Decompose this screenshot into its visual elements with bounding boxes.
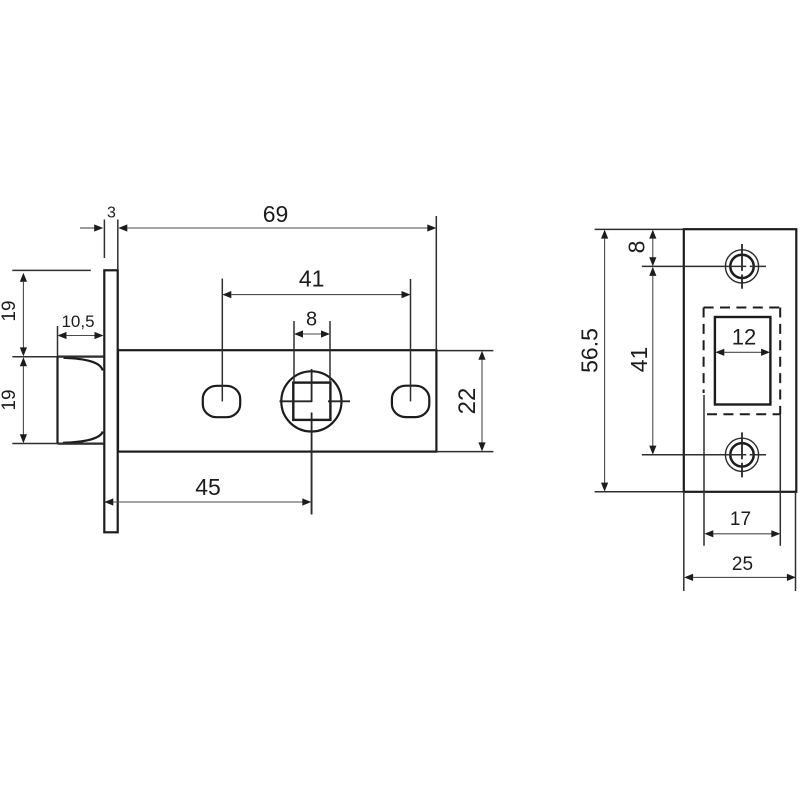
svg-text:12: 12 — [732, 325, 756, 350]
svg-text:10,5: 10,5 — [61, 312, 94, 331]
svg-text:25: 25 — [732, 554, 753, 575]
svg-text:8: 8 — [624, 241, 650, 254]
svg-text:41: 41 — [626, 347, 652, 373]
svg-text:69: 69 — [263, 201, 289, 227]
svg-text:41: 41 — [299, 265, 325, 291]
svg-text:45: 45 — [195, 474, 221, 500]
svg-text:56.5: 56.5 — [577, 328, 603, 373]
svg-text:19: 19 — [0, 389, 20, 410]
svg-text:19: 19 — [0, 300, 20, 321]
svg-text:3: 3 — [107, 204, 116, 221]
svg-text:22: 22 — [454, 388, 481, 415]
svg-text:8: 8 — [306, 309, 317, 331]
svg-text:17: 17 — [730, 509, 751, 530]
